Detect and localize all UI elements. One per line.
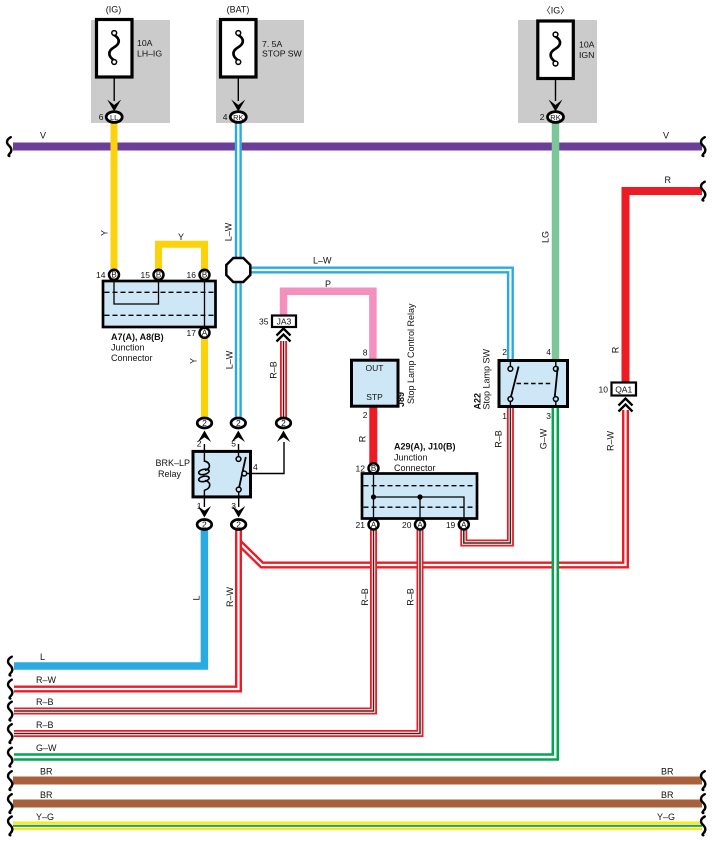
svg-text:20: 20 xyxy=(402,520,412,530)
connector 6 LL xyxy=(99,112,122,123)
wire R (J89 pin2 down to junction pin12) xyxy=(369,406,377,464)
svg-text:L: L xyxy=(192,595,202,600)
wire R-W from QA1 down, left along y=565, diagonal into R-W vertical xyxy=(240,410,626,565)
break symbol BR1 left xyxy=(8,771,12,790)
svg-text:10: 10 xyxy=(599,384,609,394)
pin 15 B xyxy=(154,270,164,280)
svg-text:STP: STP xyxy=(366,392,383,402)
switch A22 Stop Lamp SW xyxy=(499,347,568,421)
wire Y (junction pin17 to relay pin2 connector) xyxy=(201,336,208,417)
svg-text:Y–G: Y–G xyxy=(36,812,54,822)
svg-text:R–W: R–W xyxy=(225,586,235,607)
break symbol Y-G left xyxy=(8,817,12,836)
svg-text:3: 3 xyxy=(546,411,551,421)
node octagon splice xyxy=(226,258,250,282)
svg-text:6: 6 xyxy=(99,112,104,122)
svg-text:Relay: Relay xyxy=(158,469,182,479)
label A29 junction connector xyxy=(394,442,456,474)
connector ovals 2 above relay xyxy=(197,418,212,428)
svg-text:R–B: R–B xyxy=(494,430,504,448)
break symbol L left xyxy=(8,657,12,676)
svg-text:Connector: Connector xyxy=(394,463,436,473)
svg-text:35: 35 xyxy=(259,316,269,326)
pin 12 B xyxy=(369,463,379,473)
wire BR (lower brown bus) xyxy=(13,800,702,808)
break symbol V right xyxy=(701,137,705,156)
connector 2 RK xyxy=(540,112,564,123)
wire R-B (junction pin21 to left break) xyxy=(14,530,374,711)
svg-text:10A: 10A xyxy=(137,38,153,48)
break symbol R-B1 left xyxy=(8,702,12,721)
break symbol Y-G right xyxy=(701,817,705,836)
fuse F2 7.5A STOP SW xyxy=(221,5,303,112)
connector arrows below relay xyxy=(198,506,211,518)
svg-text:1: 1 xyxy=(502,411,507,421)
break symbol G-W left xyxy=(8,748,12,767)
wire R-B (A22 pin1 down and left to junction pin19) xyxy=(464,406,511,543)
svg-text:LH–IG: LH–IG xyxy=(137,49,162,59)
break symbol R right xyxy=(701,182,705,201)
label A7 junction connector xyxy=(111,332,164,363)
svg-text:Stop Lamp SW: Stop Lamp SW xyxy=(482,348,492,409)
wire Y jumper (junction pin15 to pin16) xyxy=(159,244,205,271)
svg-text:R–W: R–W xyxy=(606,430,616,451)
svg-text:R–W: R–W xyxy=(36,675,57,685)
wire BR (upper brown bus) xyxy=(13,777,702,785)
relay JA3 xyxy=(259,316,296,328)
wire R-W (relay pin3 to bottom-left break) xyxy=(14,530,239,689)
svg-text:A7(A), A8(B): A7(A), A8(B) xyxy=(111,332,164,342)
shield chevrons below QA1 xyxy=(619,399,633,412)
svg-text:QA1: QA1 xyxy=(615,385,632,395)
svg-text:19: 19 xyxy=(446,520,456,530)
svg-text:Stop Lamp Control Relay: Stop Lamp Control Relay xyxy=(406,303,416,404)
wire L-W (octagon branch right and down to A22 pin2) xyxy=(238,270,510,360)
wire R (red, from right break down to QA1) xyxy=(626,191,703,383)
svg-text:Junction: Junction xyxy=(394,453,428,463)
svg-text:R–B: R–B xyxy=(36,720,54,730)
junction connector A29(A), J10(B) xyxy=(362,474,477,519)
fuse F2 gray background xyxy=(216,20,304,123)
pin 17 A xyxy=(200,328,210,338)
svg-text:BR: BR xyxy=(661,767,674,777)
svg-text:Y: Y xyxy=(100,230,110,236)
svg-text:2: 2 xyxy=(502,347,507,357)
svg-text:Y: Y xyxy=(189,358,199,364)
shield chevrons below JA3 xyxy=(277,329,291,342)
svg-text:IGN: IGN xyxy=(579,50,594,60)
svg-text:BR: BR xyxy=(661,790,674,800)
fuse F1 10A LH-IG xyxy=(97,5,163,112)
svg-text:2: 2 xyxy=(363,410,368,420)
wire V (violet main bus) xyxy=(13,143,702,151)
svg-text:R: R xyxy=(665,175,672,185)
relay J89 Stop Lamp Control Relay xyxy=(352,348,399,421)
svg-text:Y–G: Y–G xyxy=(657,812,675,822)
svg-text:4: 4 xyxy=(223,112,228,122)
svg-text:(IG): (IG) xyxy=(106,5,122,15)
fuse F1 gray background xyxy=(91,20,170,123)
fuse F3 gray background xyxy=(518,20,597,123)
wire Y-G (yellow-green bus) xyxy=(13,822,702,831)
svg-text:R–B: R–B xyxy=(269,361,279,379)
svg-text:LL: LL xyxy=(110,113,118,122)
svg-text:R–B: R–B xyxy=(36,697,54,707)
svg-text:BR: BR xyxy=(40,767,53,777)
wire L (blue, relay pin1 to bottom-left break) xyxy=(14,530,204,666)
svg-text:10A: 10A xyxy=(579,40,595,50)
svg-text:R–B: R–B xyxy=(406,588,416,606)
break symbol BR2 left xyxy=(8,794,12,813)
svg-text:(BAT): (BAT) xyxy=(227,5,250,15)
break symbol R-W left xyxy=(8,680,12,699)
break symbol V left xyxy=(7,137,11,156)
svg-text:Y: Y xyxy=(178,232,184,242)
svg-text:RK: RK xyxy=(550,113,560,122)
svg-text:R: R xyxy=(358,435,368,442)
svg-text:〈IG〉: 〈IG〉 xyxy=(542,6,570,16)
pin 14 B xyxy=(109,270,119,280)
svg-text:15: 15 xyxy=(141,270,151,280)
svg-text:BR: BR xyxy=(40,790,53,800)
wire Y (fuse LH-IG to junction pin 14) xyxy=(111,121,118,271)
pin 19 A xyxy=(459,520,469,530)
svg-text:JA3: JA3 xyxy=(277,317,292,327)
svg-text:7. 5A: 7. 5A xyxy=(262,39,282,49)
svg-text:17: 17 xyxy=(187,328,197,338)
svg-text:R: R xyxy=(611,346,621,353)
svg-text:G–W: G–W xyxy=(36,743,57,753)
svg-text:L–W: L–W xyxy=(313,256,332,266)
connector QA1 xyxy=(599,383,636,396)
break symbol BR1 right xyxy=(701,771,705,790)
connector arrows above relay xyxy=(198,431,211,443)
svg-text:BRK–LP: BRK–LP xyxy=(155,458,190,468)
wire G-W (A22 pin3 to bottom-left break) xyxy=(14,406,555,757)
svg-text:V: V xyxy=(663,131,669,141)
connector ovals 2 below relay xyxy=(197,520,212,530)
pin 21 A xyxy=(369,520,379,530)
svg-text:OUT: OUT xyxy=(366,363,384,373)
svg-text:V: V xyxy=(40,131,46,141)
break symbol R-B2 left xyxy=(8,724,12,743)
junction connector A7(A), A8(B) xyxy=(103,281,216,327)
svg-text:STOP SW: STOP SW xyxy=(262,49,303,59)
pin 20 A xyxy=(415,520,425,530)
svg-text:P: P xyxy=(325,279,331,289)
svg-text:J89: J89 xyxy=(396,392,406,407)
fuse F3 10A IGN xyxy=(538,6,595,112)
wire P (JA3 up, right, down to J89 pin8) xyxy=(284,291,373,360)
break symbol BR2 right xyxy=(701,794,705,813)
connector 4 RK xyxy=(223,112,247,123)
svg-text:RK: RK xyxy=(233,113,243,122)
svg-text:14: 14 xyxy=(96,270,106,280)
pin 16 B xyxy=(200,270,210,280)
svg-text:Junction: Junction xyxy=(111,343,145,353)
wire R-B (JA3 chevron down to relay pin4 connector) xyxy=(280,341,287,417)
wire R-B (junction pin20 to left break) xyxy=(14,530,420,734)
svg-text:Connector: Connector xyxy=(111,353,153,363)
svg-text:A29(A), J10(B): A29(A), J10(B) xyxy=(394,442,456,452)
svg-text:LG: LG xyxy=(541,231,551,243)
svg-text:L–W: L–W xyxy=(224,222,234,241)
wire L-W (fuse STOP SW down through octagon to relay pin5 connector) xyxy=(235,121,242,417)
wire LG (fuse IGN down to A22 pin4) xyxy=(552,122,560,360)
svg-text:16: 16 xyxy=(187,270,197,280)
svg-text:8: 8 xyxy=(363,348,368,358)
relay BRK-LP xyxy=(155,439,284,512)
svg-text:G–W: G–W xyxy=(539,428,549,449)
svg-text:4: 4 xyxy=(546,347,551,357)
svg-text:4: 4 xyxy=(253,462,258,472)
svg-text:L: L xyxy=(40,652,45,662)
svg-text:21: 21 xyxy=(356,520,366,530)
svg-text:2: 2 xyxy=(540,112,545,122)
svg-text:L–W: L–W xyxy=(225,350,235,369)
svg-text:12: 12 xyxy=(356,463,366,473)
svg-text:R–B: R–B xyxy=(360,588,370,606)
